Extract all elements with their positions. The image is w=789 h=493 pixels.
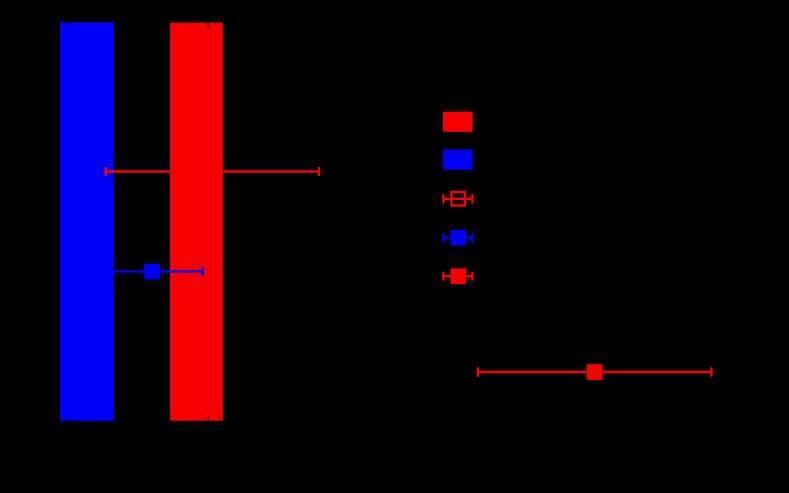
red errorbar point with filled square marker (bottom right) — [478, 367, 711, 377]
red bar — [170, 23, 223, 421]
legend item 1: red rect — [443, 112, 473, 132]
legend item 4: blue filled square with error bar — [443, 233, 472, 242]
legend item 3: red open square with error bar — [443, 192, 472, 206]
legend item 2: blue rect — [443, 150, 473, 170]
blue errorbar point with filled square marker — [110, 267, 203, 276]
red horizontal error bar (open-square series), marker hidden over red bar — [106, 167, 319, 176]
tick marks on red bar (top and bottom) — [207, 23, 209, 421]
tick marks on blue bar (top and bottom) — [67, 22, 69, 421]
legend item 5: red filled square with error bar — [443, 272, 472, 281]
blue bar — [60, 22, 114, 421]
